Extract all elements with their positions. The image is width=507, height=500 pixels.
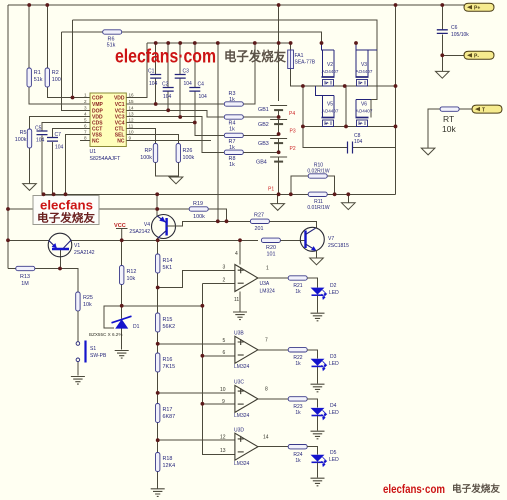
ground under LED D3 <box>311 384 325 392</box>
zener loop and R12 <box>104 240 122 349</box>
svg-text:2SA2142: 2SA2142 <box>74 250 95 256</box>
resistor R1 <box>29 5 90 104</box>
svg-text:S8254AAJFT: S8254AAJFT <box>90 156 122 162</box>
resistor R21 <box>288 276 307 280</box>
ground under V7 <box>310 258 324 265</box>
svg-text:VMP: VMP <box>92 102 104 108</box>
wire mid rail y209 <box>8 208 190 210</box>
ground under C6 <box>436 71 450 78</box>
capacitor C5 <box>42 123 90 195</box>
svg-text:1k: 1k <box>295 410 301 416</box>
svg-text:12: 12 <box>220 435 226 441</box>
wire V4 base to y221 <box>167 221 251 226</box>
opamp U3B plus wire <box>158 343 235 345</box>
ladder column <box>157 240 159 488</box>
svg-text:NC: NC <box>117 139 125 145</box>
svg-text:C2: C2 <box>162 82 169 88</box>
resistor R23 <box>288 397 307 401</box>
svg-text:V1: V1 <box>74 243 80 249</box>
svg-text:FA1: FA1 <box>295 53 304 59</box>
resistor R22 <box>288 348 307 352</box>
wire pin10 to R26 riser <box>126 135 178 144</box>
capacitor C8 <box>303 126 396 147</box>
svg-text:8: 8 <box>265 387 268 393</box>
svg-text:R5: R5 <box>20 130 27 136</box>
svg-text:C5: C5 <box>35 126 42 132</box>
svg-text:13: 13 <box>220 448 226 454</box>
svg-text:LM324: LM324 <box>234 364 250 370</box>
svg-text:104: 104 <box>163 94 172 100</box>
svg-text:LED: LED <box>329 410 339 416</box>
capacitor C4 <box>189 88 200 92</box>
svg-text:1: 1 <box>84 93 87 98</box>
svg-text:LED: LED <box>329 457 339 463</box>
ground under S1 <box>71 377 85 385</box>
wire pin16 VDD to rail43 riser <box>126 43 147 98</box>
svg-text:101: 101 <box>267 252 276 258</box>
svg-text:VC2: VC2 <box>115 108 125 114</box>
battery GB3 <box>270 139 287 144</box>
svg-text:U3D: U3D <box>234 428 244 434</box>
svg-text:U3B: U3B <box>234 331 244 337</box>
op-amp U3B <box>235 336 258 363</box>
svg-text:4: 4 <box>235 251 238 257</box>
wires IC right side pin rows <box>126 43 290 221</box>
svg-text:AO4407: AO4407 <box>322 109 339 114</box>
svg-text:11: 11 <box>129 124 134 129</box>
ground stem x348 <box>347 194 349 203</box>
svg-text:1M: 1M <box>21 281 29 287</box>
svg-text:C4: C4 <box>198 82 205 88</box>
svg-text:C7: C7 <box>55 132 62 138</box>
svg-text:U3A: U3A <box>260 281 270 287</box>
transistor V4 <box>156 194 159 240</box>
svg-text:BZX55C X 6.2%: BZX55C X 6.2% <box>89 332 122 337</box>
ground under battery <box>271 204 285 211</box>
svg-text:LED: LED <box>329 361 339 367</box>
resistor R20 <box>261 238 280 242</box>
svg-text:U3C: U3C <box>234 380 244 386</box>
ground under RT <box>421 148 435 155</box>
svg-text:V2: V2 <box>327 62 333 68</box>
resistor R18 <box>156 453 160 472</box>
svg-text:12: 12 <box>129 118 135 123</box>
svg-text:D3: D3 <box>330 354 337 360</box>
svg-text:5K1: 5K1 <box>163 265 173 271</box>
svg-text:V3: V3 <box>361 62 367 68</box>
resistor R16 <box>156 353 160 372</box>
ground under LED D5 <box>311 478 325 486</box>
vertical x345.8 <box>345 86 347 126</box>
svg-text:8: 8 <box>84 136 87 141</box>
svg-text:SW-PB: SW-PB <box>90 353 107 359</box>
svg-text:R2: R2 <box>52 70 59 76</box>
svg-text:VC1: VC1 <box>115 102 125 108</box>
svg-text:LM324: LM324 <box>260 289 276 295</box>
svg-text:VDD: VDD <box>114 96 125 102</box>
svg-text:P+: P+ <box>474 5 480 11</box>
capacitor column C2 <box>167 43 169 110</box>
rail y126.4 <box>303 125 396 127</box>
svg-text:104: 104 <box>55 145 64 151</box>
svg-text:3: 3 <box>223 265 226 271</box>
capacitor C3 <box>175 75 186 79</box>
ground under LED D2 <box>311 313 325 321</box>
svg-text:电子发烧友: 电子发烧友 <box>224 49 286 64</box>
svg-text:1k: 1k <box>229 97 235 103</box>
wire pin15 row to R3 <box>126 103 224 105</box>
resistor R10 <box>308 174 327 178</box>
wires IC left side <box>62 20 91 194</box>
wire pin14 jog to R4 <box>126 110 224 117</box>
svg-text:LM324: LM324 <box>234 461 250 467</box>
logo watermark top <box>115 47 286 68</box>
wire pin1 riser x72.5 <box>72 20 74 98</box>
svg-text:P4: P4 <box>289 111 295 117</box>
svg-text:12K4: 12K4 <box>163 463 176 469</box>
capacitor column C3 <box>179 43 181 117</box>
svg-text:4: 4 <box>84 111 87 116</box>
resistor R11 <box>308 192 327 196</box>
wire pin13 to R8 via x202 <box>126 116 224 152</box>
svg-text:7: 7 <box>84 130 87 135</box>
svg-text:R12: R12 <box>127 269 137 275</box>
svg-text:10k: 10k <box>127 276 136 282</box>
svg-text:104: 104 <box>199 94 208 100</box>
LED D2 <box>312 288 327 299</box>
svg-text:100k: 100k <box>140 155 152 161</box>
svg-text:R19: R19 <box>193 201 203 207</box>
svg-text:P3: P3 <box>290 129 296 135</box>
svg-text:105/10k: 105/10k <box>451 32 469 38</box>
svg-text:D5: D5 <box>330 450 337 456</box>
svg-text:D4: D4 <box>330 403 337 409</box>
svg-text:elecfans·com: elecfans·com <box>383 484 445 496</box>
ground right of R11 <box>342 203 356 210</box>
current sense wires <box>44 176 396 204</box>
minus bus x202.4 <box>122 271 235 455</box>
svg-text:15: 15 <box>129 99 135 104</box>
switch S1 <box>77 311 79 376</box>
resistor R19 <box>190 209 227 221</box>
thermistor RT <box>428 109 472 148</box>
svg-text:GB2: GB2 <box>258 122 269 128</box>
capacitor C6 <box>441 5 443 55</box>
LED D4 <box>312 408 327 419</box>
opamp U3A minus wire <box>202 282 235 284</box>
svg-text:elecfans: elecfans <box>40 199 93 213</box>
opamp U3B minus wire <box>202 355 235 357</box>
svg-text:COP: COP <box>92 96 104 102</box>
svg-text:104: 104 <box>354 139 363 145</box>
svg-text:R1: R1 <box>34 70 41 76</box>
svg-text:1k: 1k <box>295 458 301 464</box>
svg-text:104: 104 <box>36 138 45 144</box>
svg-text:9: 9 <box>222 399 225 405</box>
wire third top rail y32 through R6 <box>62 32 322 50</box>
resistor R24 <box>288 445 307 449</box>
opamp U3D plus wire <box>158 439 235 441</box>
svg-text:10k: 10k <box>83 302 92 308</box>
LED D3 <box>312 359 327 370</box>
resistor R26 <box>176 144 180 163</box>
svg-text:P1: P1 <box>268 187 274 193</box>
svg-text:C1: C1 <box>148 69 155 75</box>
svg-text:104: 104 <box>149 81 158 87</box>
svg-text:NC: NC <box>92 139 100 145</box>
svg-text:GB1: GB1 <box>258 107 269 113</box>
wire P1 row y194.3 <box>44 193 396 195</box>
svg-text:AO4407: AO4407 <box>356 109 373 114</box>
ground U3A pin11 <box>233 312 247 320</box>
resistor R3 <box>224 102 243 106</box>
svg-text:LED: LED <box>329 290 339 296</box>
wire second top rail y20 <box>73 20 378 118</box>
svg-text:VC3: VC3 <box>115 115 125 121</box>
svg-text:R25: R25 <box>83 295 93 301</box>
svg-text:10k: 10k <box>442 124 456 134</box>
svg-text:6: 6 <box>223 350 226 356</box>
power port VCC <box>114 223 128 240</box>
wire pin12 to x194.8 <box>126 122 195 124</box>
zener D1 <box>116 320 128 328</box>
svg-text:C6: C6 <box>451 25 458 31</box>
svg-text:100k: 100k <box>15 137 27 143</box>
resistor R17 <box>156 404 160 423</box>
svg-text:AO4407: AO4407 <box>356 69 373 74</box>
svg-text:U1: U1 <box>90 149 97 155</box>
svg-text:C3: C3 <box>183 69 190 75</box>
svg-text:7K15: 7K15 <box>163 364 176 370</box>
svg-text:P2: P2 <box>290 146 296 152</box>
svg-text:R18: R18 <box>163 456 173 462</box>
svg-text:7: 7 <box>265 338 268 344</box>
svg-text:16: 16 <box>129 93 135 98</box>
ground under zener <box>115 351 129 359</box>
svg-text:100: 100 <box>52 77 61 83</box>
svg-text:LM324: LM324 <box>234 413 250 419</box>
vertical x395.5 <box>395 5 397 194</box>
resistor R12 column <box>121 240 123 349</box>
svg-text:电子发烧友: 电子发烧友 <box>37 211 95 225</box>
svg-text:1k: 1k <box>295 289 301 295</box>
svg-text:SEA-77B: SEA-77B <box>295 60 316 66</box>
transistor V1 <box>60 249 62 269</box>
svg-text:RT: RT <box>443 114 454 124</box>
svg-text:14: 14 <box>129 105 135 110</box>
svg-text:201: 201 <box>255 226 264 232</box>
capacitor C2 <box>163 88 174 92</box>
svg-text:S1: S1 <box>90 346 96 352</box>
svg-text:GB4: GB4 <box>256 160 267 166</box>
svg-text:0.01R/1W: 0.01R/1W <box>307 205 330 211</box>
svg-text:10: 10 <box>220 387 226 393</box>
resistor R25 <box>76 292 80 311</box>
resistor R7 <box>224 133 243 137</box>
battery column spine <box>278 5 280 194</box>
resistor R6 <box>103 30 122 34</box>
op-amp U3C <box>235 385 258 412</box>
resistor R15 <box>156 313 160 332</box>
transistor V7 <box>300 227 324 251</box>
battery GB1 <box>270 106 287 111</box>
terminal T <box>472 105 502 113</box>
svg-text:5: 5 <box>84 118 87 123</box>
svg-text:V7: V7 <box>328 236 334 242</box>
svg-text:10: 10 <box>129 130 135 135</box>
rail y86 <box>303 85 396 87</box>
capacitor C1 <box>150 75 161 79</box>
svg-text:D1: D1 <box>133 324 140 330</box>
resistor R8 <box>224 150 243 154</box>
svg-text:V6: V6 <box>361 102 367 108</box>
svg-text:DOP: DOP <box>92 108 104 114</box>
svg-text:RP: RP <box>145 148 153 154</box>
svg-text:2: 2 <box>223 278 226 284</box>
capacitor column C1 <box>155 43 157 104</box>
svg-text:13: 13 <box>129 111 135 116</box>
vertical x302.9 <box>302 86 304 126</box>
elecfans logo box <box>33 196 99 225</box>
capacitor C7 <box>53 129 91 195</box>
terminal P+ <box>442 4 464 6</box>
resistor R4 <box>224 115 243 119</box>
mosfet V5 <box>316 86 334 126</box>
svg-text:V5: V5 <box>327 102 333 108</box>
svg-text:100k: 100k <box>193 214 205 220</box>
ground under LED D4 <box>311 431 325 439</box>
wire pin3 from x61.5 <box>62 32 91 110</box>
svg-text:T: T <box>482 107 485 113</box>
wire VCC rail y240 <box>8 239 258 241</box>
mosfet V2 <box>322 43 335 86</box>
opamp U3C minus wire <box>202 403 235 405</box>
svg-text:6: 6 <box>84 124 87 129</box>
IC U1 <box>84 93 134 163</box>
resistor R13 <box>8 269 78 293</box>
resistor RP <box>153 144 157 163</box>
svg-text:AO4407: AO4407 <box>322 69 339 74</box>
svg-text:6K87: 6K87 <box>163 414 176 420</box>
svg-text:3: 3 <box>84 105 87 110</box>
ground under C6 <box>441 55 443 71</box>
mosfet V6 <box>356 100 371 127</box>
svg-text:R17: R17 <box>163 407 173 413</box>
op-amp U3D <box>235 433 258 460</box>
capacitor column C4 + R7 feed <box>195 43 225 135</box>
svg-text:9: 9 <box>129 136 132 141</box>
svg-text:104: 104 <box>184 81 193 87</box>
resistor R5 <box>30 116 91 183</box>
battery GB4 <box>270 157 287 162</box>
svg-text:VDD: VDD <box>92 115 103 121</box>
wire pin8 stub <box>80 140 90 142</box>
svg-text:2SC1815: 2SC1815 <box>328 243 349 249</box>
svg-text:1k: 1k <box>229 127 235 133</box>
fuse FA1 <box>291 43 303 86</box>
wire pin7 VSS to x65.5 down <box>66 135 91 195</box>
wire left edge vertical x8 <box>7 5 9 269</box>
LED D5 <box>312 455 327 466</box>
svg-text:GB3: GB3 <box>258 141 269 147</box>
svg-text:D2: D2 <box>330 283 337 289</box>
svg-text:R14: R14 <box>163 258 173 264</box>
svg-text:R20: R20 <box>266 245 276 251</box>
opamp U3C plus wire <box>158 392 235 394</box>
svg-text:2: 2 <box>84 99 87 104</box>
mosfet V3 <box>356 43 377 86</box>
logo watermark bottom right <box>383 483 500 496</box>
svg-text:1k: 1k <box>295 361 301 367</box>
resistor R10 bracket <box>291 176 335 194</box>
svg-text:11: 11 <box>234 297 239 303</box>
ground under ladder <box>151 489 165 497</box>
svg-text:14: 14 <box>263 435 269 441</box>
ground stem battery <box>277 194 279 203</box>
resistor R12 <box>120 266 124 285</box>
long vertical x218 <box>217 43 219 221</box>
svg-text:电子发烧友: 电子发烧友 <box>452 483 500 495</box>
svg-text:R15: R15 <box>163 317 173 323</box>
wire pin11 to RP riser <box>126 129 155 144</box>
svg-text:R13: R13 <box>20 274 30 280</box>
battery GB2 <box>270 120 287 125</box>
op-amp U3A <box>235 265 258 292</box>
svg-text:R16: R16 <box>163 357 173 363</box>
svg-text:100k: 100k <box>183 155 195 161</box>
svg-text:P-: P- <box>474 54 479 60</box>
opamp U3A plus elbow <box>158 271 235 288</box>
resistor R2 <box>47 5 90 98</box>
svg-text:51k: 51k <box>34 77 43 83</box>
wire top rail y5 <box>8 4 464 6</box>
svg-text:56K2: 56K2 <box>163 324 176 330</box>
svg-text:V4: V4 <box>144 222 150 228</box>
svg-text:1k: 1k <box>229 162 235 168</box>
svg-text:R26: R26 <box>183 148 193 154</box>
svg-text:1: 1 <box>266 266 269 272</box>
rail43 <box>147 42 291 44</box>
resistor R14 <box>156 254 160 273</box>
resistor R27 <box>250 219 269 223</box>
svg-text:5: 5 <box>223 338 226 344</box>
ground under RP/R26 <box>169 177 183 184</box>
svg-text:R27: R27 <box>254 213 264 219</box>
MOSFET rails <box>303 5 396 194</box>
ground under R5 <box>23 184 37 191</box>
wire pin9 stub <box>126 140 211 142</box>
zener loop <box>104 306 122 328</box>
svg-text:elecfans·com: elecfans·com <box>115 47 216 68</box>
svg-text:2SA2142: 2SA2142 <box>129 229 150 235</box>
terminal P- <box>442 54 464 56</box>
svg-text:0.02R/1W: 0.02R/1W <box>307 169 330 175</box>
